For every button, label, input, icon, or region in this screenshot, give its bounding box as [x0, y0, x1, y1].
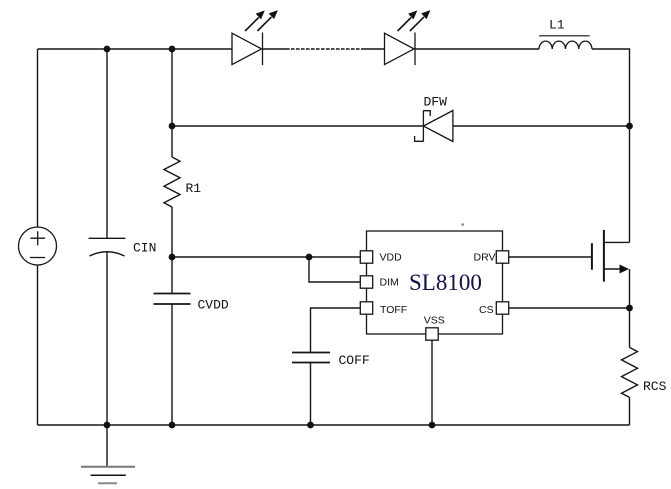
wire COFF to ground rail [310, 363, 312, 426]
node DFW right rail [626, 123, 633, 130]
voltage source V1 [19, 227, 57, 265]
node ground COFF [307, 422, 314, 429]
wire TOFF net [311, 308, 361, 353]
capacitor CVDD [154, 294, 191, 305]
pin TOFF box [360, 302, 372, 314]
node DFW branch [169, 123, 176, 130]
LED D2 [385, 10, 431, 65]
wire RCS to bottom rail [629, 397, 631, 425]
LED D1 [232, 10, 278, 65]
node ground VSS [429, 422, 436, 429]
capacitor COFF [292, 353, 330, 363]
svg-text:CS: CS [479, 304, 494, 316]
node ground CVDD [169, 422, 176, 429]
IC U1 SL8100 body [367, 231, 503, 334]
wire VDD net [172, 256, 360, 258]
ground [81, 425, 135, 483]
svg-text:VDD: VDD [380, 252, 403, 264]
wire LED1 cathode [263, 48, 287, 50]
wire left rail lower [37, 265, 39, 425]
wire left rail upper [37, 49, 39, 227]
pin VDD box [360, 251, 372, 263]
wire x172 column upper [171, 49, 173, 157]
wire VSS stem [431, 340, 433, 425]
svg-text:TOFF: TOFF [380, 304, 407, 316]
wire dashed LED string [286, 48, 361, 50]
pin DIM box [360, 276, 372, 288]
resistor RCS [622, 347, 638, 397]
diode DFW (schottky) [415, 111, 453, 142]
pin DRV box [496, 251, 508, 263]
svg-text:CIN: CIN [133, 241, 156, 256]
wire LED2 to L1 [415, 48, 539, 50]
wire DFW right [453, 125, 630, 127]
wire top rail [38, 48, 233, 50]
node top rail / R1 column [169, 46, 176, 53]
wire x172 column lower [171, 304, 173, 425]
speck artifact [461, 223, 464, 226]
node top rail / CIN [104, 46, 111, 53]
wire DFW left [172, 125, 423, 127]
svg-text:RCS: RCS [643, 379, 667, 394]
resistor R1 [164, 157, 180, 207]
svg-text:R1: R1 [186, 181, 202, 196]
svg-text:COFF: COFF [339, 353, 370, 368]
wire DRV net [509, 256, 591, 258]
wire DIM branch [309, 257, 360, 282]
node CS [626, 305, 633, 312]
pin CS box [496, 302, 508, 314]
svg-text:VSS: VSS [424, 315, 445, 327]
wire LED2 anode [361, 48, 385, 50]
inductor L1 [539, 36, 592, 49]
node VDD [169, 254, 176, 261]
wire right rail lower [629, 269, 631, 347]
svg-text:DIM: DIM [380, 277, 399, 289]
svg-text:L1: L1 [549, 18, 565, 33]
capacitor CIN [89, 238, 126, 256]
wire CS net [509, 307, 630, 309]
wire L1 to right rail / right rail upper [592, 49, 630, 242]
node DIM branch [306, 254, 313, 261]
svg-text:CVDD: CVDD [198, 298, 229, 313]
transistor Q1 NMOS [592, 230, 630, 282]
svg-text:SL8100: SL8100 [409, 270, 482, 295]
node ground CIN [104, 422, 111, 429]
svg-text:DFW: DFW [424, 95, 448, 110]
wire CIN column [106, 49, 108, 425]
pin VSS box [426, 328, 438, 340]
wire bottom rail [38, 424, 630, 426]
svg-text:DRV: DRV [474, 252, 496, 264]
wire x172 column middle [171, 207, 173, 294]
